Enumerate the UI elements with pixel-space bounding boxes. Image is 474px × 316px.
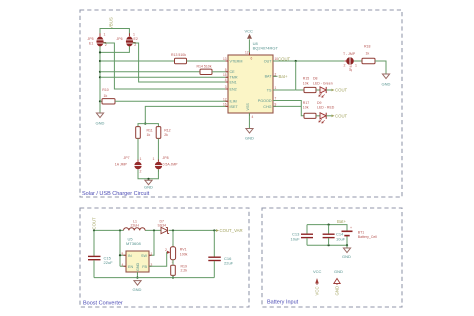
svg-text:JP6: JP6 xyxy=(117,37,123,41)
wire IC VSS to ground xyxy=(248,113,250,129)
svg-text:2: 2 xyxy=(140,170,142,174)
node COUT label xyxy=(332,114,348,119)
pin stubs U8 xyxy=(226,53,277,117)
jumper JP6 xyxy=(117,33,138,50)
svg-text:2.2k: 2.2k xyxy=(181,269,188,273)
svg-text:JP7: JP7 xyxy=(124,156,130,160)
wire pot to R19 xyxy=(172,260,174,266)
svg-text:VCC: VCC xyxy=(315,286,320,295)
svg-text:GND: GND xyxy=(144,185,153,190)
svg-text:GND: GND xyxy=(136,262,140,271)
svg-text:1A JMP: 1A JMP xyxy=(115,163,128,167)
svg-text:16: 16 xyxy=(223,102,227,106)
node junction xyxy=(153,229,155,231)
inductor L1 xyxy=(124,219,146,230)
svg-text:GND: GND xyxy=(335,286,340,296)
wire FB to wiper xyxy=(149,252,169,266)
svg-text:L1: L1 xyxy=(133,219,137,223)
svg-text:1: 1 xyxy=(133,33,135,37)
svg-text:10uF: 10uF xyxy=(336,237,346,242)
sheet frame: Solar / USB Charger Circuit xyxy=(80,10,402,197)
svg-text:2: 2 xyxy=(165,248,167,252)
wire battery top rail xyxy=(307,225,347,231)
svg-text:5: 5 xyxy=(225,68,227,72)
wire SW vertical xyxy=(149,230,154,255)
capacitor C13 xyxy=(291,225,314,246)
node junction xyxy=(136,277,138,279)
node junction xyxy=(328,244,330,246)
svg-text:VTERM: VTERM xyxy=(230,59,243,63)
sheet frame: Boost Converter xyxy=(80,208,249,307)
wire R12 to JP8 xyxy=(157,138,159,161)
wire IN/EN vertical xyxy=(120,230,126,266)
node junction xyxy=(172,277,174,279)
svg-text:Bat+: Bat+ xyxy=(279,74,288,79)
svg-text:15: 15 xyxy=(223,73,227,77)
svg-text:D7: D7 xyxy=(160,219,165,223)
resistor R19 xyxy=(171,265,188,276)
svg-text:10k: 10k xyxy=(303,105,309,109)
svg-text:COUT: COUT xyxy=(335,88,348,93)
wire top rail xyxy=(94,229,216,231)
wire TS row xyxy=(273,89,296,91)
node COUT (rotated label) xyxy=(92,217,97,230)
wire to R13 xyxy=(100,60,175,62)
potentiometer RV1 xyxy=(165,230,188,263)
svg-text:R13 510k: R13 510k xyxy=(171,53,186,57)
svg-text:22uF: 22uF xyxy=(224,261,234,266)
capacitor C16 xyxy=(208,230,233,277)
svg-text:R15: R15 xyxy=(303,77,309,81)
wire JP7/JP8 to ground xyxy=(138,170,158,179)
svg-text:VCC: VCC xyxy=(313,269,322,274)
svg-text:JP5: JP5 xyxy=(88,37,94,41)
svg-text:3: 3 xyxy=(225,85,227,89)
svg-text:LED - Green: LED - Green xyxy=(313,82,333,86)
resistor R17 xyxy=(303,101,316,119)
svg-text:4: 4 xyxy=(252,115,254,119)
resistor R18 xyxy=(362,45,375,64)
resistor R14 xyxy=(197,65,213,75)
svg-text:1: 1 xyxy=(153,157,155,161)
svg-text:1k: 1k xyxy=(366,52,370,56)
ground xyxy=(133,281,142,292)
svg-text:EN: EN xyxy=(128,265,133,269)
svg-text:1: 1 xyxy=(140,157,142,161)
svg-text:+: + xyxy=(350,226,352,230)
svg-text:10uF: 10uF xyxy=(291,237,301,242)
wire VCC to IC xyxy=(248,39,250,55)
ground xyxy=(382,74,391,87)
ground xyxy=(144,180,153,189)
svg-text:GND: GND xyxy=(334,269,343,274)
node junction xyxy=(99,51,101,53)
svg-text:13: 13 xyxy=(223,57,227,61)
svg-text:10k: 10k xyxy=(303,82,309,86)
node junction xyxy=(144,123,146,125)
wire GND bus xyxy=(99,52,101,113)
node junction xyxy=(93,229,95,231)
wire ISET net xyxy=(145,106,228,123)
wire CHG row xyxy=(273,105,301,107)
sheet frame: Battery Input xyxy=(262,208,402,307)
wire to R14 xyxy=(100,71,200,73)
node junction xyxy=(99,76,101,78)
node junction xyxy=(119,229,121,231)
svg-text:T - JMP: T - JMP xyxy=(343,52,356,56)
svg-text:JP4: JP4 xyxy=(349,65,353,71)
diode D7 xyxy=(158,219,170,233)
wire PGOOD to R17 xyxy=(273,101,304,116)
capacitor C15 xyxy=(88,230,113,277)
node junction xyxy=(346,244,348,246)
svg-text:4: 4 xyxy=(122,263,124,267)
svg-text:FB: FB xyxy=(142,265,147,269)
node COUT_VAR label xyxy=(216,228,243,233)
svg-text:EN2: EN2 xyxy=(230,87,237,91)
node COUT at OUT pin xyxy=(273,56,344,61)
svg-text:R18: R18 xyxy=(364,45,370,49)
wire OUT branch to TS xyxy=(295,61,297,90)
resistor R10 xyxy=(100,88,115,104)
wire T-JMP to R18 xyxy=(354,60,362,62)
op-amp U5 boost IC xyxy=(122,236,153,274)
svg-text:VBUS: VBUS xyxy=(109,17,114,29)
svg-text:D9: D9 xyxy=(317,101,322,105)
resistor R11 xyxy=(136,127,153,139)
svg-text:4: 4 xyxy=(225,78,227,82)
node junction xyxy=(172,229,174,231)
svg-text:GND: GND xyxy=(133,287,142,292)
svg-text:LED - RED: LED - RED xyxy=(317,105,335,109)
svg-text:E2: E2 xyxy=(134,37,138,41)
jumper JP4 (T-JMP) xyxy=(343,52,357,72)
node junction xyxy=(213,229,215,231)
svg-text:GND: GND xyxy=(96,121,105,126)
wire TMR row xyxy=(100,76,228,78)
node COUT label xyxy=(332,88,348,93)
resistor R13 xyxy=(171,53,187,64)
svg-text:1k: 1k xyxy=(104,94,108,98)
resistor R12 xyxy=(156,127,170,139)
wire R18 to ground xyxy=(375,61,386,74)
svg-text:VSS: VSS xyxy=(246,103,250,111)
wire battery bottom rail xyxy=(307,236,347,245)
wire R11 to JP7 xyxy=(137,138,139,161)
wire R19 to rail xyxy=(172,275,174,277)
svg-text:R11: R11 xyxy=(147,129,153,133)
svg-text:COUT: COUT xyxy=(92,217,97,230)
svg-text:SW: SW xyxy=(141,254,147,258)
node junction xyxy=(119,254,121,256)
ground xyxy=(245,129,254,141)
wire R14 to CE xyxy=(212,71,228,73)
capacitor C14 xyxy=(323,225,346,246)
wire JP6.2 to EN1 net xyxy=(133,43,228,82)
wire U5 GND to rail xyxy=(136,272,138,278)
svg-text:1: 1 xyxy=(104,33,106,37)
svg-text:D8: D8 xyxy=(313,77,318,81)
svg-text:2: 2 xyxy=(275,72,277,76)
node junction xyxy=(99,100,101,102)
node junction xyxy=(99,60,101,62)
power flag VCC xyxy=(245,29,254,39)
pin stubs U5 xyxy=(124,255,152,274)
node junction xyxy=(328,224,330,226)
svg-text:Solar / USB Charger Circuit: Solar / USB Charger Circuit xyxy=(82,191,150,197)
svg-text:Battery Input: Battery Input xyxy=(267,300,299,306)
svg-text:CHG: CHG xyxy=(263,105,271,109)
wire JP5.2 to EN2 net xyxy=(103,43,228,89)
svg-text:CE: CE xyxy=(230,70,236,74)
svg-text:BQ24074RGT: BQ24074RGT xyxy=(253,46,279,51)
jumper JP8 xyxy=(153,156,179,172)
node Bat+ at BAT pin xyxy=(273,74,288,79)
jumper JP5 xyxy=(88,33,107,50)
svg-text:1: 1 xyxy=(355,64,357,68)
node VBUS (rotated label) xyxy=(100,17,129,35)
svg-text:2: 2 xyxy=(344,64,346,68)
svg-text:ILIM: ILIM xyxy=(230,100,237,104)
svg-text:ISET: ISET xyxy=(230,105,239,109)
svg-text:BAT: BAT xyxy=(265,75,273,79)
svg-text:TS: TS xyxy=(267,88,272,92)
svg-text:Bat+: Bat+ xyxy=(337,219,346,224)
svg-text:COUT: COUT xyxy=(335,114,348,119)
svg-text:5: 5 xyxy=(122,252,124,256)
wire OUT to T-JMP xyxy=(273,60,344,62)
svg-text:E1: E1 xyxy=(89,42,93,46)
wire bottom rail xyxy=(94,277,214,279)
power pin VCC xyxy=(313,269,322,296)
wire TS/R15 row xyxy=(296,89,304,91)
svg-text:Boost Converter: Boost Converter xyxy=(83,301,123,307)
svg-text:22uF: 22uF xyxy=(104,260,114,265)
svg-text:R10: R10 xyxy=(102,88,108,92)
wire R11/R12 tops xyxy=(138,124,158,127)
svg-text:EN1: EN1 xyxy=(230,80,237,84)
svg-text:TMR: TMR xyxy=(230,76,238,80)
svg-text:7: 7 xyxy=(275,97,277,101)
LED D8 xyxy=(313,77,333,98)
svg-text:1: 1 xyxy=(275,86,277,90)
svg-text:PGOOD: PGOOD xyxy=(258,99,272,103)
svg-text:BT1: BT1 xyxy=(358,230,364,234)
svg-text:Battery_Cell: Battery_Cell xyxy=(358,235,377,239)
svg-text:RV1: RV1 xyxy=(180,248,187,252)
svg-text:MT3608: MT3608 xyxy=(126,241,141,246)
svg-text:1k: 1k xyxy=(147,133,151,137)
jumper JP7 xyxy=(115,156,142,174)
svg-text:R12: R12 xyxy=(164,129,170,133)
wire xyxy=(100,28,129,35)
ground xyxy=(96,113,105,126)
battery BT1 xyxy=(342,226,378,239)
svg-text:VCC: VCC xyxy=(245,29,254,34)
node junction xyxy=(99,71,101,73)
svg-text:0.5A JMP: 0.5A JMP xyxy=(163,163,179,167)
svg-text:COUT_VAR: COUT_VAR xyxy=(220,228,243,233)
svg-text:GND: GND xyxy=(382,82,391,87)
svg-text:GND: GND xyxy=(342,254,351,259)
svg-text:GND: GND xyxy=(245,136,254,141)
wire jumper bottoms xyxy=(100,46,129,52)
node junction xyxy=(295,60,297,62)
svg-text:OUT: OUT xyxy=(264,59,273,63)
power pin GND xyxy=(334,269,343,296)
svg-text:R17: R17 xyxy=(303,101,309,105)
svg-text:9: 9 xyxy=(275,102,277,106)
ground xyxy=(342,248,351,259)
LED D9 xyxy=(316,101,335,123)
svg-text:IN: IN xyxy=(128,254,132,258)
wire to ground xyxy=(346,245,348,248)
svg-text:SS34: SS34 xyxy=(158,224,167,228)
svg-text:12: 12 xyxy=(245,51,249,55)
wire R13 to VTERM xyxy=(187,60,229,62)
svg-text:12: 12 xyxy=(223,97,227,101)
svg-text:R14 510k: R14 510k xyxy=(197,65,212,69)
svg-text:JP8: JP8 xyxy=(163,156,169,160)
svg-text:22uH: 22uH xyxy=(131,224,140,228)
resistor R15 xyxy=(303,77,316,93)
svg-text:6: 6 xyxy=(251,57,253,61)
svg-text:2k: 2k xyxy=(164,133,168,137)
svg-text:100k: 100k xyxy=(180,253,188,257)
node junction xyxy=(147,178,149,180)
wire R10 to ILIM xyxy=(115,100,228,102)
op-amp U8 charger IC xyxy=(223,41,279,116)
